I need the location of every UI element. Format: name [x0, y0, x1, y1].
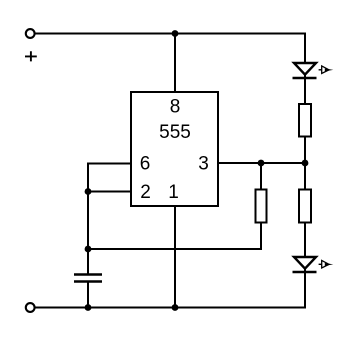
wire right chain vertical — [304, 34, 306, 308]
node junction bottom rail / pin 1 — [172, 304, 179, 311]
LED D1 emission arrow — [319, 66, 334, 74]
LED D2 triangle — [294, 257, 316, 269]
label + — [25, 51, 37, 61]
svg-text:1: 1 — [168, 182, 179, 203]
resistor R1 — [299, 104, 311, 137]
IC U1 555 timer body — [131, 92, 218, 206]
wire pin 1 drop to bottom rail — [174, 206, 176, 308]
wire left vertical lower segment below C1 — [87, 282, 89, 308]
LED D2 cathode bar — [293, 271, 317, 274]
svg-text:3: 3 — [198, 154, 209, 175]
wire pin 8 drop from top rail to IC — [174, 34, 176, 93]
LED D2 emission arrow — [319, 260, 334, 268]
resistor R3 — [299, 190, 311, 223]
wire R2 branch down and left to timing node — [87, 163, 261, 249]
LED D1 cathode bar — [293, 77, 317, 80]
node junction pin2 / pin6 — [85, 188, 92, 195]
LED D1 triangle — [294, 63, 316, 75]
capacitor C1 — [74, 275, 102, 282]
wire pin 2 to left vertical — [88, 191, 131, 193]
node junction top rail / pin 8 — [172, 30, 179, 37]
node junction pin3 / R2 — [258, 160, 265, 167]
svg-text:555: 555 — [159, 122, 191, 143]
svg-text:8: 8 — [170, 97, 181, 118]
node junction timing node / R2 branch — [85, 246, 92, 253]
svg-text:2: 2 — [140, 182, 151, 203]
resistor R2 — [256, 190, 267, 223]
wire left vertical upper segment — [87, 163, 89, 275]
node junction pin3 / right chain — [302, 160, 309, 167]
terminal T1 positive supply — [26, 29, 35, 38]
terminal T2 negative supply — [26, 303, 35, 312]
wire pin 6 to left vertical — [88, 163, 131, 165]
wire top rail from T1 to right chain — [35, 33, 306, 35]
wire pin 3 output line — [218, 162, 305, 164]
svg-text:6: 6 — [140, 154, 151, 175]
node junction bottom rail / C1 — [85, 304, 92, 311]
wire bottom rail — [35, 307, 306, 309]
